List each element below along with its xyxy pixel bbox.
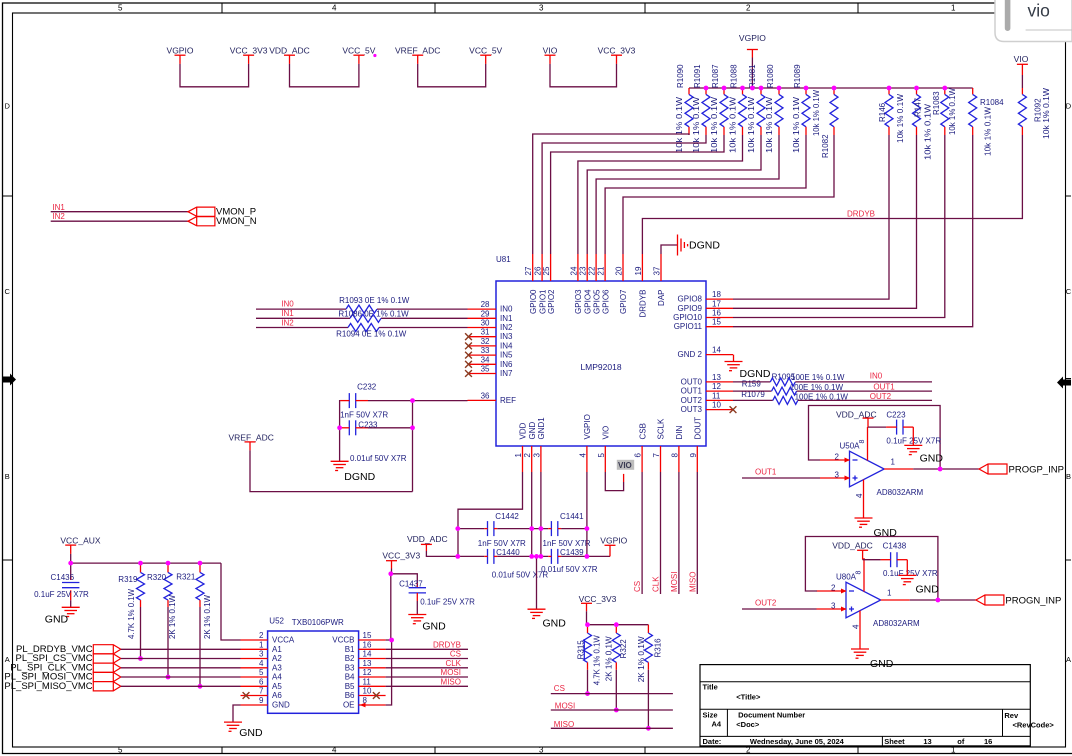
svg-text:2: 2 (259, 631, 264, 640)
svg-text:15: 15 (712, 318, 721, 327)
left border arrow (2, 374, 16, 386)
wire CS (bus) (551, 693, 673, 695)
svg-text:MOSI: MOSI (670, 572, 679, 592)
svg-text:1nF 50V X7R: 1nF 50V X7R (478, 539, 526, 548)
junction R322 (614, 708, 619, 713)
wire feedback U80A (805, 537, 938, 601)
svg-text:20: 20 (615, 266, 624, 275)
resistor R320 (164, 563, 172, 607)
svg-text:GND: GND (920, 453, 944, 465)
svg-text:VCC_5V: VCC_5V (342, 46, 375, 56)
svg-text:25: 25 (542, 266, 551, 275)
pins U81 right OUT0-3 (681, 373, 733, 414)
svg-text:DGND: DGND (344, 471, 375, 483)
wire R319 down (140, 607, 142, 659)
svg-text:1nF 50V X7R: 1nF 50V X7R (340, 411, 388, 420)
port PL_DRDYB_VMC (93, 645, 121, 654)
ground DGND (GND2) (725, 361, 743, 363)
svg-text:IN0: IN0 (870, 371, 883, 380)
svg-text:TXB0106PWR: TXB0106PWR (292, 618, 344, 627)
pins U81 right GPIO8-11 (673, 290, 733, 331)
power symbol VCC_3V3 (U52) (382, 551, 420, 574)
svg-text:100E 1% 0.1W: 100E 1% 0.1W (790, 383, 844, 392)
no-connect X (465, 333, 472, 340)
capacitor C1440 (484, 549, 497, 564)
svg-text:VCC_3V3: VCC_3V3 (230, 46, 268, 56)
svg-text:4: 4 (332, 4, 337, 13)
svg-text:6: 6 (634, 453, 643, 458)
wire R320 down (167, 607, 169, 677)
op-amp U50A body (850, 451, 885, 487)
svg-text:GPIO3: GPIO3 (574, 289, 583, 314)
svg-text:C1442: C1442 (495, 512, 519, 521)
svg-text:DGND: DGND (689, 240, 720, 252)
svg-text:2K 1% 0.1W: 2K 1% 0.1W (604, 636, 613, 681)
svg-text:29: 29 (481, 309, 490, 318)
svg-text:B: B (5, 472, 10, 481)
arrow OE (360, 703, 366, 708)
wire IN2 (256, 327, 348, 329)
ground DGND (DAP) (678, 235, 688, 256)
svg-text:23: 23 (579, 266, 588, 275)
svg-text:2: 2 (746, 4, 751, 13)
svg-text:A6: A6 (272, 691, 282, 700)
svg-text:GPIO5: GPIO5 (592, 289, 601, 314)
wire GPIO0 net (533, 134, 689, 254)
svg-text:R1090: R1090 (676, 64, 685, 88)
wire VDD_ADC-C223 (868, 426, 886, 428)
junction VCC3V3 mid (388, 571, 393, 576)
title block (700, 665, 1054, 746)
svg-text:5: 5 (118, 746, 123, 755)
resistor R147 10k (913, 88, 933, 160)
svg-text:IN2: IN2 (500, 323, 513, 332)
svg-text:<Title>: <Title> (736, 693, 761, 702)
svg-text:VDD_ADC: VDD_ADC (832, 541, 873, 551)
resistor R1082 10k (812, 88, 838, 158)
pins U52 left (241, 631, 295, 710)
svg-text:1nF 50V X7R: 1nF 50V X7R (543, 539, 591, 548)
power symbol VGPIO (C1439) (600, 535, 627, 556)
wire VIO stub (623, 474, 625, 482)
svg-text:4: 4 (855, 493, 864, 498)
svg-text:2K 1% 0.1W: 2K 1% 0.1W (168, 595, 177, 639)
power symbol VDD_ADC (U80A) (832, 541, 873, 560)
junction R321 bot (198, 684, 203, 689)
svg-text:21: 21 (597, 266, 606, 275)
power symbol VCC_AUX (60, 536, 100, 564)
svg-text:R147: R147 (914, 97, 923, 117)
wire REF line (368, 400, 468, 402)
wire VDD_ADC-VCC_5V (290, 64, 359, 87)
power symbol VIO (right) (1014, 54, 1029, 88)
svg-text:1: 1 (259, 640, 264, 649)
wire VMON_N (51, 220, 188, 222)
pin1 stub U80A (881, 599, 910, 601)
wire DAP (661, 245, 678, 254)
junction out U50A (938, 467, 943, 472)
wire VGPIO pin4 (586, 472, 588, 556)
wire VCCB rail (386, 574, 391, 640)
wire OE rail (386, 640, 392, 705)
svg-text:R1094 0E 1% 0.1W: R1094 0E 1% 0.1W (336, 330, 407, 339)
no-connect X (465, 352, 472, 359)
resistor R316 (644, 625, 652, 670)
wire IN0 (256, 308, 346, 310)
svg-text:AD8032ARM: AD8032ARM (877, 488, 924, 497)
svg-text:10k 1% 0.1W: 10k 1% 0.1W (765, 96, 774, 153)
ground GND (C1436) (62, 606, 80, 608)
op-amp U80A body (846, 582, 881, 618)
svg-text:VCC_3V3: VCC_3V3 (382, 551, 420, 561)
svg-text:4.7K 1% 0.1W: 4.7K 1% 0.1W (127, 589, 136, 639)
junction (704, 86, 709, 91)
svg-text:GPIO8: GPIO8 (678, 295, 703, 304)
resistor R1093 0E (346, 305, 377, 313)
wire VGPIO-VCC_3V3 (180, 64, 249, 87)
svg-text:A1: A1 (272, 645, 282, 654)
svg-text:VCC_3V3: VCC_3V3 (598, 46, 636, 56)
resistor R315 (584, 625, 592, 670)
svg-text:Title: Title (703, 683, 718, 692)
svg-text:B6: B6 (345, 691, 355, 700)
svg-text:B: B (1066, 472, 1071, 481)
svg-text:U50A: U50A (840, 442, 861, 451)
wire bottom rail b (497, 555, 548, 557)
svg-text:IN0: IN0 (281, 300, 294, 309)
svg-text:10k 1% 0.1W: 10k 1% 0.1W (692, 96, 701, 153)
svg-text:IN3: IN3 (500, 332, 513, 341)
svg-text:GND: GND (543, 618, 567, 630)
svg-text:5: 5 (597, 453, 606, 458)
svg-text:27: 27 (524, 266, 533, 275)
power symbol VCC_3V3 (230, 46, 268, 64)
svg-text:22: 22 (588, 266, 597, 275)
wire GND pin2 (531, 472, 533, 556)
resistor R1080 10k (765, 64, 783, 153)
wire R316 down (647, 670, 649, 729)
power symbol VCC_3V3 (pullups) (579, 594, 617, 625)
no-connect X (465, 343, 472, 350)
resistor R1095 100E (770, 378, 795, 386)
svg-text:12: 12 (712, 382, 721, 391)
svg-text:MOSI: MOSI (555, 702, 575, 711)
junction (914, 86, 919, 91)
capacitor C223 (886, 420, 913, 435)
capacitor C1441 (548, 521, 561, 536)
svg-text:VREF_ADC: VREF_ADC (229, 433, 274, 443)
wire VMON_P (51, 211, 188, 213)
wire MISO (bus) (551, 727, 673, 729)
svg-text:OUT2: OUT2 (681, 396, 703, 405)
svg-text:MISO: MISO (441, 678, 461, 687)
svg-text:R1081: R1081 (748, 64, 757, 88)
junction (832, 86, 837, 91)
junction R319 top (138, 561, 143, 566)
svg-text:C: C (4, 287, 10, 296)
svg-text:DRDYB: DRDYB (847, 210, 875, 219)
svg-text:VGPIO: VGPIO (739, 33, 766, 43)
svg-text:VCC_AUX: VCC_AUX (60, 536, 100, 546)
wire R1095 right (795, 381, 932, 383)
power symbol VREF_ADC (mid) (229, 433, 274, 451)
svg-text:Size: Size (703, 711, 718, 720)
junction (740, 86, 745, 91)
svg-text:VDD_ADC: VDD_ADC (269, 46, 310, 56)
svg-text:PROGP_INP: PROGP_INP (1009, 465, 1064, 476)
junction REF1 (410, 398, 415, 403)
svg-text:33: 33 (481, 346, 490, 355)
ground GND (U52) (224, 721, 242, 723)
svg-text:GND: GND (45, 613, 69, 625)
pin REF (468, 391, 517, 405)
svg-text:GND: GND (874, 527, 898, 539)
svg-text:VREF_ADC: VREF_ADC (395, 46, 440, 56)
svg-text:GND: GND (916, 584, 940, 596)
svg-text:Sheet: Sheet (884, 737, 905, 746)
junction (759, 86, 764, 91)
svg-text:GPIO11: GPIO11 (674, 322, 703, 331)
power symbol VDD_ADC (269, 46, 310, 64)
svg-text:VGPIO: VGPIO (600, 535, 627, 545)
ic U81 outline (496, 281, 706, 446)
svg-text:VIO: VIO (543, 46, 558, 56)
port PL_SPI_CS_VMC (93, 654, 121, 663)
svg-text:C1439: C1439 (560, 548, 584, 557)
wire VDD_ADC-C1438 (863, 559, 881, 561)
ground GND (C1438) (898, 574, 916, 576)
wire GPIO8 net (733, 135, 889, 299)
svg-text:6: 6 (259, 677, 264, 686)
svg-text:GND: GND (422, 620, 446, 632)
wire R159 left (733, 390, 772, 392)
resistor R1091 10k (692, 64, 710, 153)
svg-text:C232: C232 (357, 383, 377, 392)
svg-text:CS: CS (554, 684, 565, 693)
svg-text:GND 2: GND 2 (678, 350, 703, 359)
pin4 stub U50A (863, 480, 865, 518)
pin1 stub U50A (884, 468, 913, 470)
svg-text:B3: B3 (345, 663, 355, 672)
svg-text:0.1uF 25V X7R: 0.1uF 25V X7R (34, 590, 89, 599)
svg-text:C: C (1066, 287, 1072, 296)
svg-text:R1084: R1084 (980, 98, 1004, 107)
svg-text:VDD_ADC: VDD_ADC (407, 534, 448, 544)
svg-text:11: 11 (712, 391, 721, 400)
svg-text:12: 12 (363, 668, 372, 677)
svg-text:9: 9 (259, 696, 264, 705)
svg-text:32: 32 (481, 337, 490, 346)
svg-text:28: 28 (481, 300, 490, 309)
svg-text:100E 1% 0.1W: 100E 1% 0.1W (791, 373, 845, 382)
svg-text:R320: R320 (147, 573, 167, 582)
junction out U80A (936, 598, 941, 603)
wire GPIO6 net (605, 135, 806, 254)
svg-text:DOUT: DOUT (694, 417, 703, 440)
wire GPIO11 net (733, 135, 973, 327)
svg-text:0.1uF 25V X7R: 0.1uF 25V X7R (420, 598, 475, 607)
wire C223 gnd (912, 427, 914, 445)
svg-text:35: 35 (481, 365, 490, 374)
svg-text:A2: A2 (272, 654, 282, 663)
svg-text:DGND: DGND (740, 368, 771, 380)
svg-text:<RevCode>: <RevCode> (1013, 721, 1055, 730)
svg-text:OUT1: OUT1 (873, 383, 895, 392)
svg-text:VIO: VIO (602, 426, 611, 440)
svg-text:R1086 0E 1% 0.1W: R1086 0E 1% 0.1W (338, 310, 409, 319)
wire R159 right (797, 390, 932, 392)
junction (539, 526, 544, 531)
svg-text:VCC_5V: VCC_5V (469, 46, 502, 56)
svg-text:10k 1% 0.1W: 10k 1% 0.1W (675, 96, 684, 153)
svg-text:DAP: DAP (657, 290, 666, 306)
pin4 stub U80A (859, 611, 861, 649)
svg-text:DRDYB: DRDYB (433, 641, 461, 650)
svg-text:R1088: R1088 (730, 64, 739, 88)
svg-text:8: 8 (856, 571, 863, 575)
junction VCCB (389, 638, 394, 643)
svg-text:5: 5 (118, 4, 123, 13)
wire PL_SPI_MOSI_VMC (121, 676, 241, 678)
svg-text:C1438: C1438 (883, 542, 907, 551)
wire feedback U50A (809, 406, 941, 470)
svg-text:A5: A5 (272, 682, 282, 691)
svg-text:2: 2 (746, 746, 751, 755)
wire R322 down (615, 670, 617, 710)
no-connect X (465, 370, 472, 377)
svg-text:OUT3: OUT3 (681, 405, 703, 414)
svg-text:OUT2: OUT2 (870, 392, 892, 401)
no-connect X (465, 361, 472, 368)
svg-text:IN7: IN7 (500, 369, 513, 378)
svg-text:IN6: IN6 (500, 360, 513, 369)
svg-text:vio: vio (1028, 1, 1050, 21)
svg-text:10: 10 (712, 401, 721, 410)
wire VREF_ADC route (250, 450, 413, 491)
resistor R159 100E (772, 387, 797, 395)
svg-text:A: A (5, 655, 10, 664)
svg-text:OUT1: OUT1 (681, 387, 703, 396)
port PL_SPI_CLK_VMC (93, 663, 121, 672)
svg-text:A4: A4 (272, 673, 282, 682)
wire R1079 left (733, 399, 773, 401)
junction R315 (585, 691, 590, 696)
svg-text:OUT0: OUT0 (681, 377, 703, 386)
wire GPIO7 net (623, 135, 834, 254)
highlight VIO (617, 460, 634, 470)
svg-text:IN0: IN0 (500, 305, 513, 314)
svg-text:OUT1: OUT1 (755, 468, 777, 477)
power symbol VCC_3V3 (598, 46, 636, 64)
wire GPIO5 net (596, 135, 779, 254)
ground GND (rails) (528, 608, 546, 610)
wire top rail b (497, 528, 548, 530)
svg-text:7: 7 (259, 687, 264, 696)
wire GPIO10 net (733, 135, 945, 318)
svg-text:16: 16 (984, 737, 992, 746)
svg-text:5: 5 (259, 668, 264, 677)
wire pullup rail (588, 624, 649, 626)
svg-text:MOSI: MOSI (441, 668, 461, 677)
svg-text:A4: A4 (712, 719, 722, 728)
capacitor C233 (340, 420, 368, 435)
wire DRDYB net (642, 135, 1022, 254)
svg-text:GND: GND (239, 727, 263, 739)
svg-text:SCLK: SCLK (657, 418, 666, 440)
wire output U80A (910, 599, 976, 601)
power symbol VCC_5V (342, 46, 375, 64)
wire MISO (pin) (696, 472, 698, 594)
wire CS (pin) (641, 472, 643, 594)
svg-text:16: 16 (712, 309, 721, 318)
svg-text:4: 4 (259, 659, 264, 668)
power symbol VDD_ADC (U50A) (836, 409, 877, 427)
junction pullup rail2 (614, 622, 619, 627)
resistor R321 (196, 563, 204, 607)
ground GND (C1437) (408, 614, 426, 616)
wire PL_DRDYB_VMC (121, 648, 241, 650)
wire VDD pin1 route (458, 472, 523, 529)
svg-text:A3: A3 (272, 663, 282, 672)
svg-text:VGPIO: VGPIO (583, 414, 592, 439)
wire bottom rail c (561, 555, 610, 557)
svg-text:7: 7 (652, 453, 661, 458)
wire bottom rail a (458, 555, 484, 557)
no-connect X B6 (373, 692, 380, 699)
wire top rail c (561, 528, 587, 530)
junction REF3 (410, 425, 415, 430)
svg-text:U81: U81 (496, 255, 511, 264)
svg-text:R1093 0E 1% 0.1W: R1093 0E 1% 0.1W (339, 296, 410, 305)
svg-text:R1082: R1082 (821, 134, 830, 158)
capacitor C1437 (409, 583, 426, 615)
wire MOSI (bus) (551, 709, 673, 711)
svg-text:GND1: GND1 (537, 417, 546, 440)
wire C1438 gnd (906, 560, 908, 576)
pin2 stub U80A (817, 590, 847, 592)
wire U52 gnd (233, 705, 241, 722)
svg-text:MISO: MISO (688, 572, 697, 592)
svg-text:R1091: R1091 (693, 64, 702, 88)
svg-text:CS: CS (633, 581, 642, 592)
svg-text:GPIO4: GPIO4 (583, 289, 592, 314)
junction (529, 554, 534, 559)
svg-text:R1083: R1083 (932, 91, 941, 115)
resistor R1083 10k (932, 88, 957, 135)
junction (455, 554, 460, 559)
svg-text:Document Number: Document Number (738, 711, 805, 720)
wire GPIO4 net (587, 135, 761, 254)
svg-text:DIN: DIN (675, 426, 684, 440)
pins U81 bottom (514, 414, 703, 472)
wire VCC_AUX rail (71, 562, 221, 564)
svg-text:10: 10 (363, 687, 372, 696)
wire GPIO9 net (733, 135, 917, 308)
junction R319 bot (138, 656, 143, 661)
svg-text:VIO: VIO (1014, 54, 1029, 64)
svg-text:DRDYB: DRDYB (639, 290, 648, 318)
svg-text:C223: C223 (886, 410, 906, 419)
svg-text:GPIO9: GPIO9 (678, 304, 703, 313)
svg-text:34: 34 (481, 355, 490, 364)
svg-text:VCCB: VCCB (332, 636, 354, 645)
pin names U81 top (529, 289, 666, 318)
svg-text:19: 19 (634, 266, 643, 275)
junction (722, 86, 727, 91)
svg-text:B2: B2 (345, 654, 355, 663)
svg-text:18: 18 (712, 290, 721, 299)
svg-text:1: 1 (514, 453, 523, 458)
